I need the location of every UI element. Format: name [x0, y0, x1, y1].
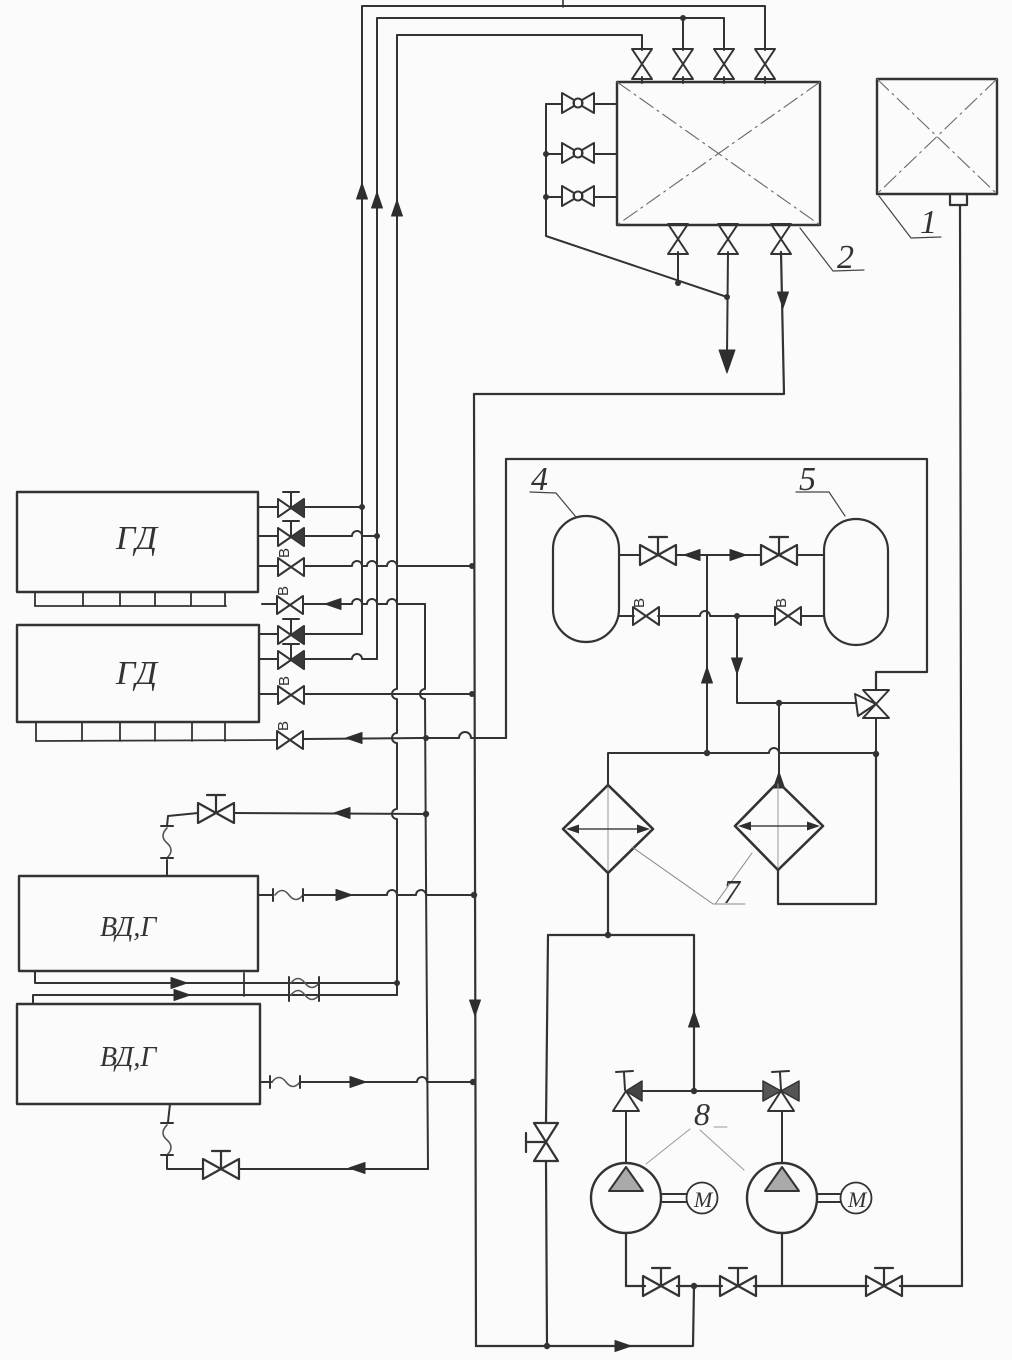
main engine box GD1: [17, 492, 258, 592]
flow arrow up on riser 1: [357, 183, 368, 199]
valve F4 (tank4 top outlet): [640, 537, 676, 565]
flow arrow up on riser 2: [372, 192, 383, 208]
wire: three-way bottom to header: [875, 718, 877, 754]
motor M2: [817, 1183, 872, 1214]
label 5 leader: [796, 461, 845, 516]
wire: filter 7a bottom to pump header: [607, 873, 609, 935]
suction valve S2: [720, 1268, 756, 1296]
valve T2-2 on tank2 top: [673, 49, 693, 79]
valve B2-1 tank2 bottom: [668, 224, 688, 254]
tank 1 (service tank, label 1): [877, 79, 997, 205]
svg-text:1: 1: [920, 204, 937, 241]
wire: header right branch down to pump valves: [693, 935, 695, 1091]
svg-text:2: 2: [837, 239, 854, 276]
wire: tank2 overflow drain with big arrow: [727, 252, 728, 355]
wire: big loop top and left (to GD2 row4): [506, 459, 927, 738]
wire: VDG2 bottom drain with flex: [167, 1104, 203, 1169]
wire: pump discharge header y=935: [548, 934, 694, 936]
circle valve C3 left of tank2: [546, 186, 617, 206]
svg-text:ВД,Г: ВД,Г: [100, 912, 157, 943]
pump1 discharge angle valve: [613, 1071, 642, 1111]
svg-text:ВД,Г: ВД,Г: [100, 1042, 157, 1073]
valve T2-1 on tank2 top: [632, 49, 652, 79]
wire: pump discharge cross line y=1091: [641, 1090, 762, 1092]
svg-text:В: В: [276, 548, 293, 558]
valve F5b (В): [775, 607, 801, 625]
wire: supply line 3 (x=397 riser to tank2 top valve 1): [397, 35, 642, 50]
wire: suction riser from bottom main: [476, 1286, 694, 1346]
wire: header left branch down to bypass valve: [546, 935, 548, 1346]
valve VDG2-drain (x=221 y=1169): [203, 1151, 239, 1179]
riser 3 vertical with hops at 694,738,814: [392, 35, 397, 995]
tank 2 (settling tank, label 2): [617, 82, 820, 225]
wire: VDG2 right supply with flex, to drop leg: [260, 1081, 272, 1083]
suction valve S3: [866, 1268, 902, 1296]
wire: VDG1 under-line A: [35, 971, 397, 983]
wire: tank 1 down to bottom right: [960, 205, 962, 1286]
filter tank 5: [824, 519, 888, 645]
label 7 leader: [632, 847, 752, 911]
wire: drop to filter 7b: [778, 703, 780, 782]
svg-text:В: В: [773, 598, 790, 608]
wire: supply line 2 (x=377 riser to tank2 top valve 3): [377, 18, 724, 659]
valve VDG1-vent (x=216 y=813): [198, 795, 234, 823]
filter 7a diamond: [563, 785, 653, 873]
valve GD1-3 (row y=566, В): [258, 548, 475, 576]
wire: circle-valve header down and slant to drain: [546, 104, 727, 297]
wire: valve B2-1 to slant junction: [677, 252, 679, 283]
svg-text:4: 4: [531, 461, 548, 498]
svg-text:ГД: ГД: [115, 655, 159, 692]
valve GD1-4 (row y=604, В): [262, 586, 425, 614]
circle valve C1 left of tank2: [546, 93, 617, 113]
wire: supply line 1 (x=362 riser to tank2 top valve 4): [362, 6, 765, 634]
GD2 manifold comb: [36, 722, 276, 741]
valve GD1-1 (row y=507): [258, 492, 365, 517]
wire: filter 7b bottom loop to three-way: [778, 754, 876, 904]
filter tank 4: [553, 516, 619, 642]
label 8 leader: [646, 1096, 744, 1170]
tick joining lines A and B: [243, 973, 245, 996]
valve GD2-4 (row y=739, В): [275, 721, 506, 749]
circle valve C2 left of tank2: [546, 143, 617, 163]
valve GD2-3 (row y=694, В): [259, 676, 475, 704]
filter 7b diamond: [735, 782, 823, 870]
flow arrow up on riser 3: [392, 200, 403, 216]
junction: [680, 15, 686, 21]
svg-text:В: В: [276, 676, 293, 686]
valve GD2-1 (row y=634): [259, 619, 362, 644]
wire: pump2 suction drop: [781, 1233, 783, 1286]
motor M1: [661, 1183, 718, 1214]
valve GD2-2 (row y=659): [259, 644, 377, 669]
GD1 manifold comb: [35, 592, 226, 606]
wire: VDG1 top vent line with flex: [167, 813, 198, 876]
svg-text:М: М: [693, 1187, 714, 1212]
svg-text:М: М: [847, 1187, 868, 1212]
wire: common return riser x=426: [420, 604, 428, 1169]
valve T2-4 on tank2 top: [755, 49, 775, 79]
tick on top line: [562, 0, 564, 7]
diesel generator box VDG2: [17, 1004, 260, 1104]
wire: from 616 row down to three-way valve: [737, 616, 855, 703]
three-way valve: [855, 690, 889, 718]
label 1 leader: [879, 196, 941, 241]
diesel generator box VDG1: [19, 876, 258, 971]
wire: drain line to riser x=428: [239, 1168, 428, 1170]
valve GD1-2 (row y=536): [258, 521, 380, 546]
wire: VDG1 under-line B: [33, 983, 397, 1004]
suction valve S1: [643, 1268, 679, 1296]
valve B2-3 tank2 bottom: [771, 224, 791, 254]
wire: suction header y=753: [608, 748, 876, 785]
svg-text:8: 8: [694, 1096, 710, 1132]
pump 1 (label 8): [591, 1111, 661, 1233]
pump2 discharge three-way valve (dark): [763, 1071, 799, 1111]
wire: vent line to riser x=426: [234, 813, 426, 814]
label 4 leader: [530, 461, 576, 517]
wire: second row y=616: [619, 611, 824, 616]
main engine box GD2: [17, 625, 259, 722]
svg-text:7: 7: [723, 874, 742, 911]
svg-text:5: 5: [799, 461, 816, 498]
wire: VDG1 right supply with flex, to drop leg: [258, 894, 273, 896]
pump 2 (label 8): [747, 1111, 817, 1233]
svg-text:В: В: [631, 598, 648, 608]
svg-text:ГД: ГД: [115, 520, 159, 557]
wire: top row y=555 between tanks 4 and 5: [619, 554, 824, 556]
bypass valve (vertical, handle left): [526, 1123, 558, 1161]
svg-text:В: В: [275, 586, 292, 596]
svg-text:В: В: [275, 721, 292, 731]
label 2 leader: [800, 228, 864, 276]
wire: pump suction line y=1286: [626, 1233, 962, 1286]
valve F5 (tank5 top outlet): [761, 537, 797, 565]
wire: centre drop from top row to suction header: [706, 555, 708, 753]
wire: branch to tank2 top valve 2: [682, 18, 684, 50]
valve T2-3 on tank2 top: [714, 49, 734, 79]
valve F4b (В): [633, 607, 659, 625]
valve B2-2 tank2 bottom: [718, 224, 738, 254]
wire: tank2 outlet down, left and down the long drop leg x=474: [474, 252, 784, 1346]
